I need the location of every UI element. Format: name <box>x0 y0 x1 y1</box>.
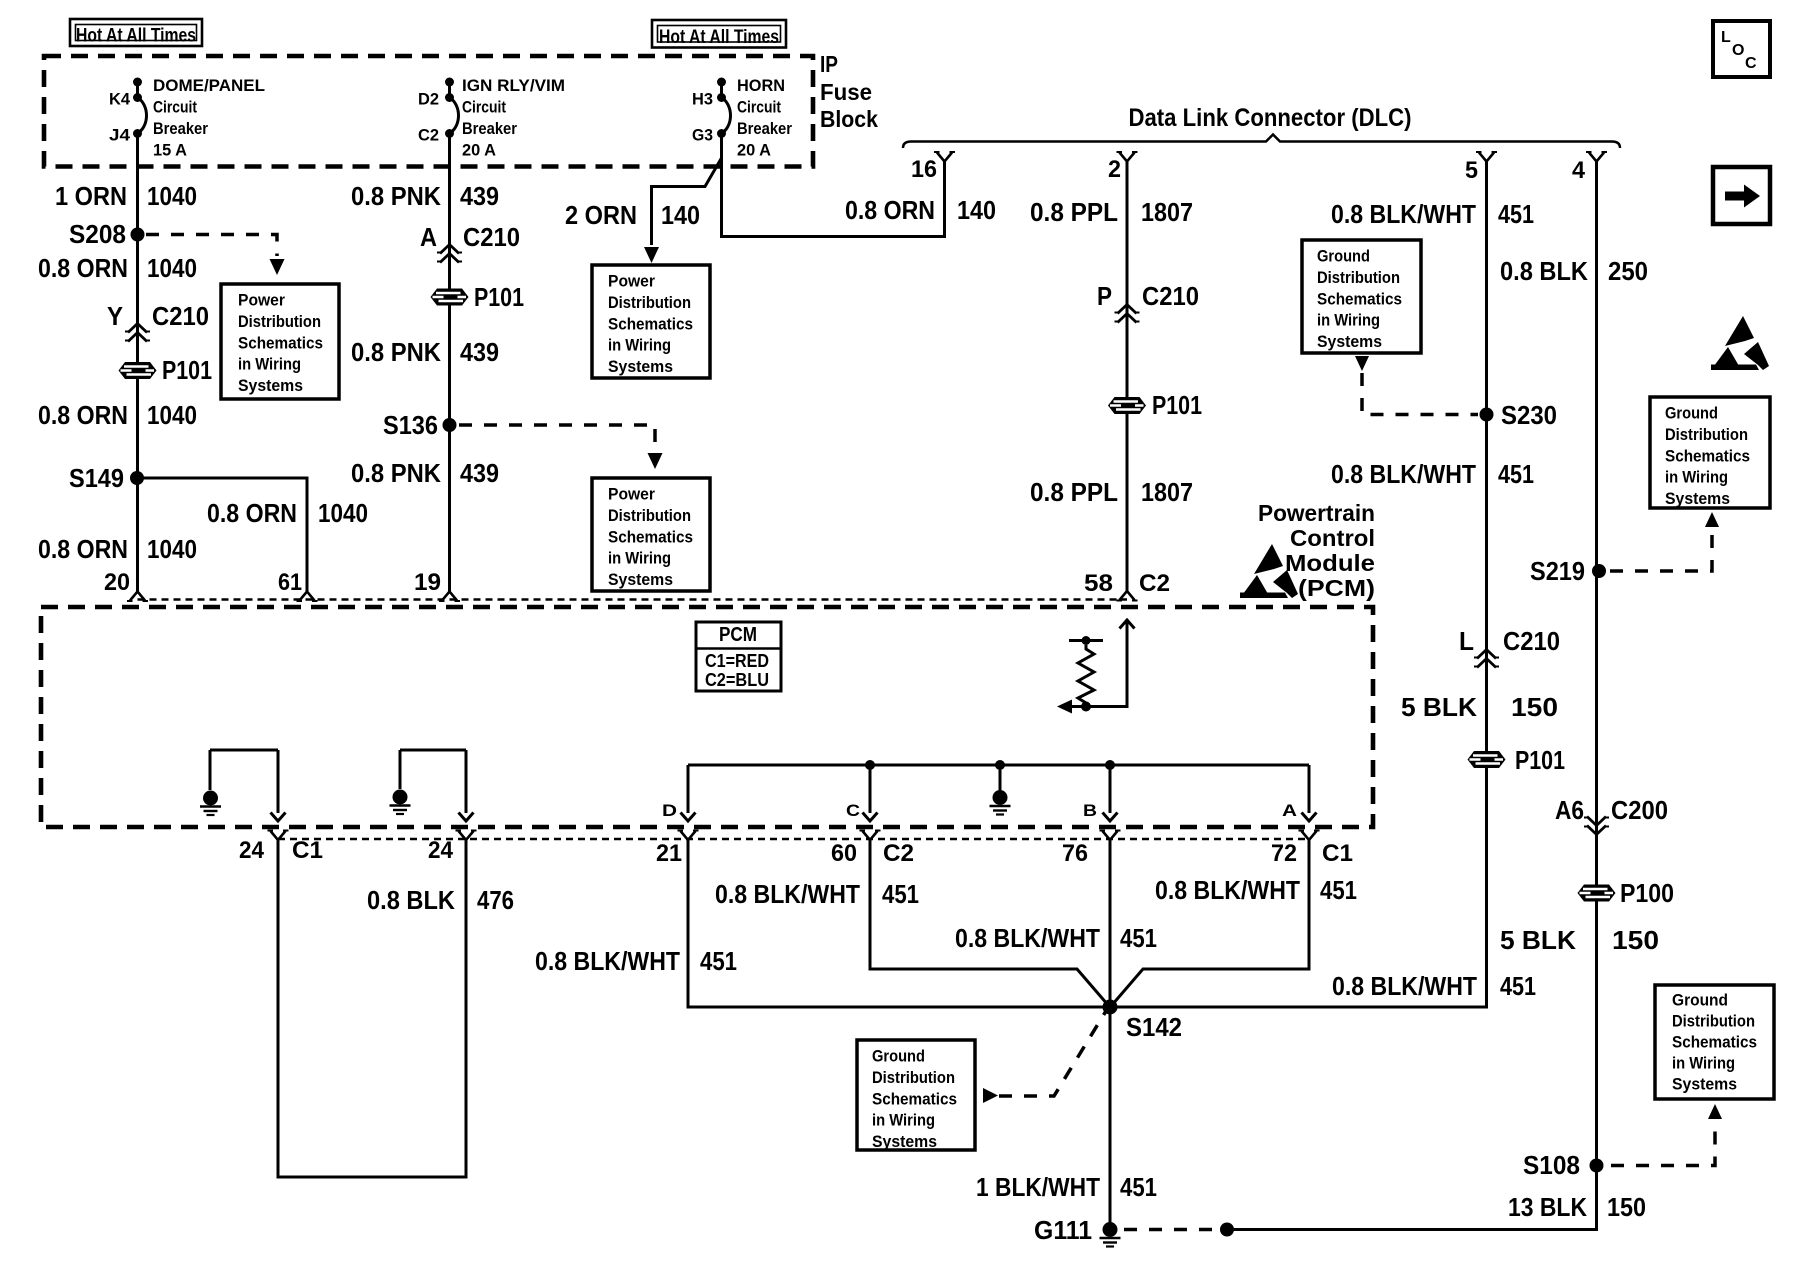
svg-text:S108: S108 <box>1523 1150 1580 1180</box>
svg-text:G3: G3 <box>692 126 713 145</box>
grommet P101 (pin5) <box>1468 751 1506 768</box>
svg-text:C200: C200 <box>1611 795 1668 825</box>
svg-text:L: L <box>1459 626 1474 656</box>
wire: terminal 76 to S142 <box>1109 840 1112 1007</box>
splice S208 <box>131 228 145 242</box>
svg-text:1040: 1040 <box>147 181 197 211</box>
dashed pointer from S136 <box>459 425 655 451</box>
PCM internal ground 1 to terminal 24 C1 <box>210 750 278 813</box>
ground G111 <box>1100 1222 1121 1247</box>
wire: DLC pin 5 down, left to S142 <box>1110 162 1487 1008</box>
svg-text:0.8 PPL: 0.8 PPL <box>1030 477 1118 507</box>
svg-text:S149: S149 <box>69 463 124 493</box>
svg-text:K4: K4 <box>109 90 131 109</box>
svg-text:0.8 ORN: 0.8 ORN <box>38 400 128 430</box>
svg-text:Schematics: Schematics <box>872 1090 957 1108</box>
svg-text:S219: S219 <box>1530 556 1585 586</box>
svg-text:Systems: Systems <box>608 571 673 589</box>
dashed pointer to S230 <box>1355 356 1369 371</box>
svg-text:P101: P101 <box>162 355 212 385</box>
svg-text:P101: P101 <box>1515 745 1565 775</box>
svg-text:A: A <box>420 222 437 252</box>
svg-text:0.8 BLK/WHT: 0.8 BLK/WHT <box>1155 875 1300 905</box>
svg-text:1040: 1040 <box>147 400 197 430</box>
svg-text:in Wiring: in Wiring <box>608 550 671 568</box>
svg-text:G111: G111 <box>1034 1215 1092 1245</box>
svg-text:in Wiring: in Wiring <box>1317 312 1380 330</box>
svg-text:451: 451 <box>1498 199 1534 229</box>
svg-text:21: 21 <box>656 840 682 867</box>
svg-text:Distribution: Distribution <box>1665 426 1748 444</box>
svg-text:Power: Power <box>608 486 656 504</box>
circuit breaker IGN RLY/VIM <box>445 78 454 87</box>
arrow to PCM internals <box>1072 705 1086 708</box>
svg-text:Circuit: Circuit <box>737 98 781 117</box>
svg-text:Hot At All Times: Hot At All Times <box>76 26 196 47</box>
svg-text:IP: IP <box>820 51 838 77</box>
svg-text:Breaker: Breaker <box>737 119 792 138</box>
svg-text:0.8 PNK: 0.8 PNK <box>351 181 441 211</box>
svg-text:S208: S208 <box>69 219 126 249</box>
svg-text:451: 451 <box>1500 971 1536 1001</box>
svg-text:Circuit: Circuit <box>462 98 506 117</box>
svg-text:L: L <box>1721 29 1731 46</box>
svg-text:4: 4 <box>1572 157 1586 184</box>
svg-text:0.8 BLK: 0.8 BLK <box>367 885 455 915</box>
wire: terminal 21 to S142 <box>688 840 1110 1007</box>
svg-text:16: 16 <box>911 156 937 183</box>
svg-text:Systems: Systems <box>872 1133 937 1151</box>
PCM connector row (bottom, thin dashed) <box>278 838 1309 841</box>
svg-text:0.8 BLK/WHT: 0.8 BLK/WHT <box>1331 199 1476 229</box>
PCM connector row (top, thin dashed) <box>138 598 1128 601</box>
IP Fuse Block dashed outline <box>44 56 813 167</box>
svg-text:1 BLK/WHT: 1 BLK/WHT <box>976 1172 1100 1202</box>
pointer box: Ground Distribution Schematics in Wiring Systems (S142) <box>857 1040 975 1150</box>
svg-text:451: 451 <box>1320 875 1357 905</box>
svg-text:20 A: 20 A <box>737 141 771 160</box>
terminal C / 60 C2 <box>863 813 878 822</box>
PCM internal ground 2 to terminal 24 <box>400 750 466 813</box>
resistor (PCM internal pull-up) <box>1069 639 1103 642</box>
svg-text:76: 76 <box>1062 840 1088 867</box>
svg-text:72: 72 <box>1271 840 1297 867</box>
svg-text:0.8 PNK: 0.8 PNK <box>351 458 441 488</box>
grommet P101 (left) <box>119 362 157 379</box>
pointer box: Power Distribution Schematics in Wiring Systems (S136) <box>592 478 710 591</box>
svg-text:C2: C2 <box>1139 570 1170 597</box>
svg-text:Breaker: Breaker <box>153 119 208 138</box>
svg-text:Power: Power <box>608 273 656 291</box>
svg-text:C2: C2 <box>883 840 914 867</box>
wire: G3 down and right to DLC pin 16 <box>722 134 945 237</box>
svg-text:Circuit: Circuit <box>153 98 197 117</box>
svg-text:Fuse: Fuse <box>820 79 872 105</box>
svg-text:Control: Control <box>1290 525 1375 551</box>
svg-text:451: 451 <box>700 946 737 976</box>
svg-text:5: 5 <box>1465 157 1478 184</box>
svg-text:Systems: Systems <box>1317 333 1382 351</box>
svg-text:150: 150 <box>1511 692 1558 722</box>
pointer box: Power Distribution Schematics in Wiring Systems (S208) <box>221 284 339 399</box>
PCM connector legend box <box>696 622 781 691</box>
svg-text:0.8 BLK/WHT: 0.8 BLK/WHT <box>955 923 1100 953</box>
svg-text:(PCM): (PCM) <box>1298 575 1375 601</box>
svg-text:C1=RED: C1=RED <box>705 651 769 671</box>
svg-text:Distribution: Distribution <box>238 313 321 331</box>
svg-text:439: 439 <box>460 337 499 367</box>
svg-text:HORN: HORN <box>737 76 785 95</box>
svg-text:439: 439 <box>460 181 499 211</box>
wire: branch to arrow (2 ORN) <box>652 158 722 245</box>
wire: DLC pin 4 down to G111 line <box>1233 162 1597 1230</box>
svg-text:15 A: 15 A <box>153 141 187 160</box>
svg-text:1 ORN: 1 ORN <box>55 181 127 211</box>
svg-text:150: 150 <box>1607 1192 1646 1222</box>
svg-text:Distribution: Distribution <box>608 294 691 312</box>
wire: J4 down to PCM terminal 20 <box>136 134 139 592</box>
svg-text:140: 140 <box>661 200 700 230</box>
svg-text:J4: J4 <box>109 126 131 145</box>
terminal 61 <box>297 592 318 602</box>
svg-text:Module: Module <box>1285 550 1375 576</box>
svg-text:19: 19 <box>414 569 441 596</box>
svg-text:A: A <box>1282 801 1297 820</box>
splice S108 <box>1590 1159 1604 1173</box>
junction dot on ground wire <box>1220 1223 1234 1237</box>
svg-text:0.8 ORN: 0.8 ORN <box>38 534 128 564</box>
svg-text:451: 451 <box>1120 1172 1157 1202</box>
PCM module dashed outline <box>41 607 1373 827</box>
pointer box: Ground Distribution Schematics in Wiring Systems (S108) <box>1655 985 1774 1099</box>
svg-text:Ground: Ground <box>1665 405 1718 423</box>
svg-text:Breaker: Breaker <box>462 119 517 138</box>
svg-text:Systems: Systems <box>1665 490 1730 508</box>
svg-text:C1: C1 <box>1322 840 1353 867</box>
wire: DLC pin 2 down to PCM terminal 58 <box>1126 162 1129 592</box>
dashed pointer S219 to box <box>1610 530 1712 571</box>
svg-text:P100: P100 <box>1620 878 1674 908</box>
grommet P101 (pin2) <box>1108 397 1146 414</box>
svg-text:2 ORN: 2 ORN <box>565 200 637 230</box>
svg-text:20 A: 20 A <box>462 141 496 160</box>
svg-text:A6: A6 <box>1555 795 1584 825</box>
wire: S142 down to G111 <box>1109 1007 1112 1230</box>
svg-text:0.8 BLK/WHT: 0.8 BLK/WHT <box>715 879 860 909</box>
PCM internal ground 3 <box>990 790 1011 815</box>
svg-text:IGN RLY/VIM: IGN RLY/VIM <box>462 76 565 95</box>
svg-text:B: B <box>1083 801 1097 820</box>
svg-text:0.8 ORN: 0.8 ORN <box>38 253 128 283</box>
svg-text:5 BLK: 5 BLK <box>1500 925 1576 955</box>
dashed pointer S108 to box <box>1611 1122 1715 1166</box>
svg-text:in Wiring: in Wiring <box>1665 469 1728 487</box>
svg-text:Ground: Ground <box>872 1048 925 1066</box>
svg-text:24: 24 <box>239 837 265 864</box>
grommet P100 <box>1578 885 1616 902</box>
svg-text:439: 439 <box>460 458 499 488</box>
wire: terminal 72 to S142 <box>1112 840 1309 1005</box>
svg-text:Schematics: Schematics <box>1665 447 1750 465</box>
svg-text:Hot At All Times: Hot At All Times <box>659 27 779 48</box>
DLC pin 5 <box>1476 152 1497 162</box>
arrow hotlink box <box>1713 167 1770 224</box>
svg-text:Schematics: Schematics <box>1672 1034 1757 1052</box>
splice S219 <box>1592 564 1606 578</box>
terminal 19 <box>439 592 460 602</box>
svg-text:0.8 PPL: 0.8 PPL <box>1030 197 1118 227</box>
wire: C2 down to PCM terminal 19 <box>448 134 451 592</box>
pointer box: Power Distribution Schematics in Wiring Systems (HORN) <box>592 265 710 378</box>
svg-text:0.8 BLK/WHT: 0.8 BLK/WHT <box>535 946 680 976</box>
terminal 20 <box>127 592 148 602</box>
splice S142 <box>1103 1000 1118 1015</box>
terminal A / 72 C1 <box>1302 813 1317 822</box>
svg-text:P101: P101 <box>1152 390 1202 420</box>
svg-text:C: C <box>846 801 860 820</box>
PCM internal rail to terminals D C B A <box>688 765 1309 813</box>
circuit breaker HORN <box>717 78 726 87</box>
wire: terminal 60 to S142 <box>870 840 1108 1005</box>
dashed pointer from box to S142 <box>983 1088 998 1103</box>
svg-text:Schematics: Schematics <box>238 334 323 352</box>
svg-text:C210: C210 <box>1142 281 1199 311</box>
svg-text:Schematics: Schematics <box>1317 290 1402 308</box>
svg-text:Powertrain: Powertrain <box>1258 500 1375 526</box>
svg-text:0.8 BLK/WHT: 0.8 BLK/WHT <box>1331 459 1476 489</box>
svg-text:0.8 BLK/WHT: 0.8 BLK/WHT <box>1332 971 1477 1001</box>
grommet P101 (middle) <box>431 289 469 306</box>
svg-text:D2: D2 <box>418 90 439 109</box>
wire: ground loop 24 to 24 (0.8 BLK 476) <box>278 840 466 1177</box>
svg-text:PCM: PCM <box>719 624 757 646</box>
svg-text:P: P <box>1097 281 1112 311</box>
svg-text:13 BLK: 13 BLK <box>1508 1192 1587 1222</box>
svg-text:0.8 PNK: 0.8 PNK <box>351 337 441 367</box>
svg-text:S142: S142 <box>1126 1012 1182 1042</box>
svg-text:C210: C210 <box>152 301 209 331</box>
terminal 58 C2 <box>1117 591 1138 601</box>
ESD symbol (right margin) <box>1711 316 1769 370</box>
svg-text:58: 58 <box>1084 570 1113 597</box>
svg-text:0.8 ORN: 0.8 ORN <box>845 195 935 225</box>
svg-text:S136: S136 <box>383 410 438 440</box>
terminal B / 76 <box>1103 813 1118 822</box>
dashed link G111 to pin4 ground wire <box>1124 1228 1221 1232</box>
svg-text:250: 250 <box>1608 256 1648 286</box>
svg-text:Distribution: Distribution <box>872 1069 955 1087</box>
svg-text:Distribution: Distribution <box>1317 269 1400 287</box>
svg-text:61: 61 <box>278 569 302 596</box>
svg-text:1040: 1040 <box>147 253 197 283</box>
svg-text:D: D <box>662 801 677 820</box>
splice S230 <box>1480 408 1494 422</box>
svg-text:S230: S230 <box>1501 400 1557 430</box>
svg-text:1040: 1040 <box>318 498 368 528</box>
svg-text:Systems: Systems <box>1672 1076 1737 1094</box>
svg-text:0.8 BLK: 0.8 BLK <box>1500 256 1588 286</box>
DLC pin 4 <box>1586 152 1607 162</box>
svg-text:60: 60 <box>831 840 857 867</box>
svg-text:C1: C1 <box>292 837 323 864</box>
splice S136 <box>443 418 457 432</box>
dashed pointer from S208 <box>146 235 277 257</box>
svg-text:Systems: Systems <box>608 358 673 376</box>
svg-text:Y: Y <box>107 301 123 331</box>
DLC bracket <box>903 135 1620 149</box>
svg-text:Data Link Connector (DLC): Data Link Connector (DLC) <box>1129 104 1412 132</box>
terminal D / 21 <box>681 813 696 822</box>
svg-text:P101: P101 <box>474 282 524 312</box>
svg-text:O: O <box>1732 42 1744 59</box>
splice S149 <box>130 471 144 485</box>
svg-text:476: 476 <box>477 885 514 915</box>
svg-text:DOME/PANEL: DOME/PANEL <box>153 76 265 95</box>
svg-text:C210: C210 <box>463 222 520 252</box>
wire: terminal 58 into PCM with resistor <box>1120 620 1135 629</box>
svg-text:1040: 1040 <box>147 534 197 564</box>
svg-text:in Wiring: in Wiring <box>608 337 671 355</box>
svg-text:in Wiring: in Wiring <box>238 356 301 374</box>
svg-text:Distribution: Distribution <box>1672 1013 1755 1031</box>
label box: Hot At All Times (left) <box>70 19 202 46</box>
svg-text:Block: Block <box>820 106 878 132</box>
svg-text:Distribution: Distribution <box>608 507 691 525</box>
svg-text:Systems: Systems <box>238 377 303 395</box>
pointer box: Ground Distribution Schematics in Wiring Systems (S219) <box>1650 397 1770 508</box>
svg-text:C210: C210 <box>1503 626 1560 656</box>
wire: S149 branch to terminal 61 <box>138 478 308 592</box>
svg-text:in Wiring: in Wiring <box>872 1112 935 1130</box>
svg-text:Schematics: Schematics <box>608 315 693 333</box>
svg-text:1807: 1807 <box>1141 477 1193 507</box>
svg-text:24: 24 <box>428 837 454 864</box>
svg-text:Ground: Ground <box>1672 992 1728 1010</box>
svg-text:451: 451 <box>882 879 919 909</box>
pointer box: Ground Distribution Schematics in Wiring Systems (S230) <box>1302 240 1421 353</box>
svg-text:451: 451 <box>1120 923 1157 953</box>
svg-text:0.8 ORN: 0.8 ORN <box>207 498 297 528</box>
circuit breaker DOME/PANEL <box>133 78 142 87</box>
svg-text:451: 451 <box>1498 459 1534 489</box>
LOC hotlink box <box>1713 21 1770 77</box>
svg-text:Ground: Ground <box>1317 248 1370 266</box>
DLC pin 16 <box>934 152 955 162</box>
svg-text:C: C <box>1745 55 1757 72</box>
svg-text:Schematics: Schematics <box>608 528 693 546</box>
svg-text:2: 2 <box>1108 156 1121 183</box>
svg-text:150: 150 <box>1612 925 1659 955</box>
svg-text:1807: 1807 <box>1141 197 1193 227</box>
DLC pin 2 <box>1117 152 1138 162</box>
label box: Hot At All Times (right) <box>652 20 786 48</box>
svg-text:20: 20 <box>104 569 130 596</box>
svg-text:C2: C2 <box>418 126 439 145</box>
ESD symbol (PCM) <box>1240 544 1298 598</box>
svg-text:Power: Power <box>238 292 286 310</box>
svg-text:in Wiring: in Wiring <box>1672 1055 1735 1073</box>
svg-text:140: 140 <box>957 195 996 225</box>
svg-text:5 BLK: 5 BLK <box>1401 692 1477 722</box>
svg-text:C2=BLU: C2=BLU <box>705 670 769 690</box>
svg-text:H3: H3 <box>692 90 713 109</box>
